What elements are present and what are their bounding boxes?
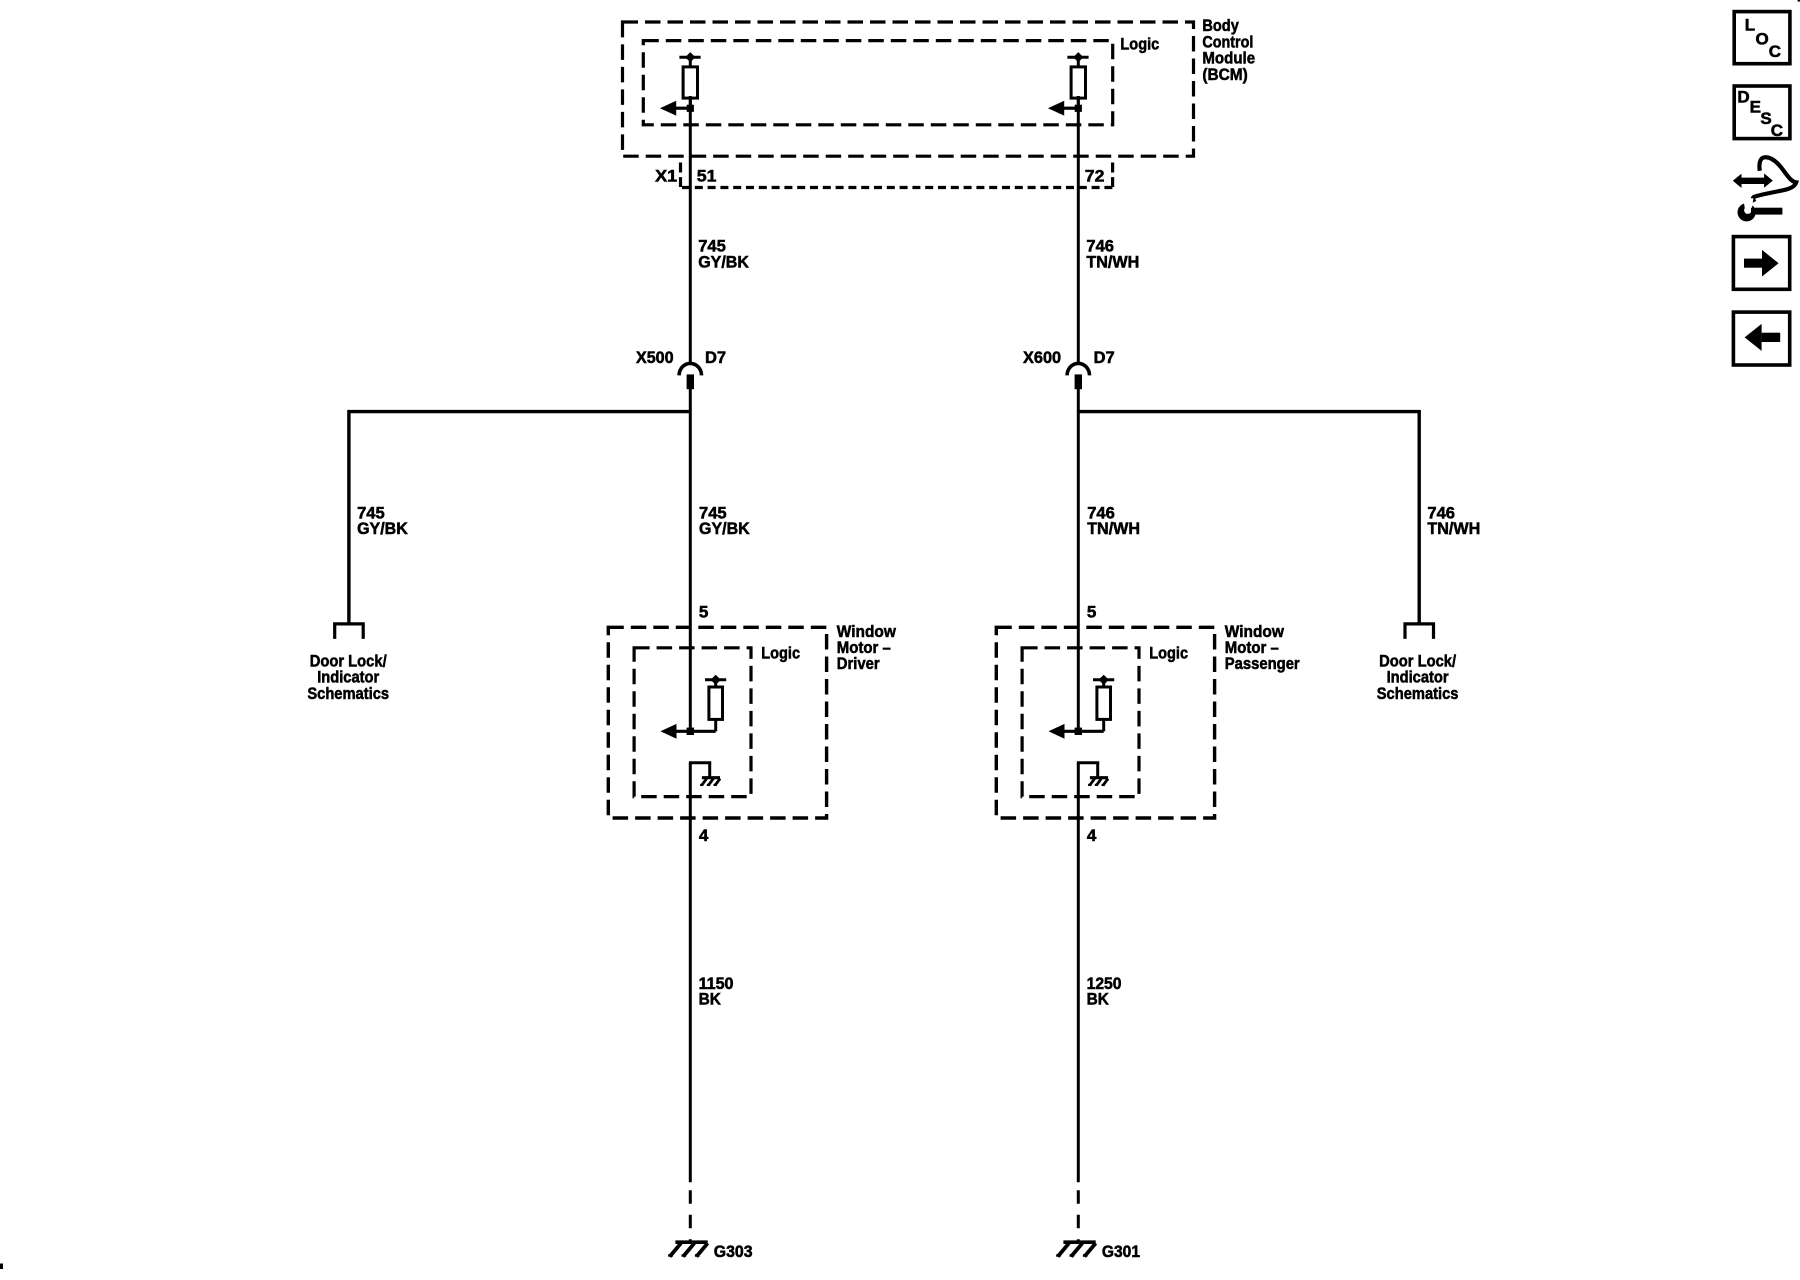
resistor driver (window motor logic) (705, 675, 726, 732)
svg-text:G301: G301 (1102, 1242, 1140, 1261)
page mark (bottom left) (0, 1264, 3, 1270)
svg-text:4: 4 (699, 826, 709, 845)
dashed wire segment to G301 (1077, 1190, 1080, 1240)
svg-text:G303: G303 (714, 1242, 753, 1261)
svg-text:X1: X1 (655, 166, 677, 185)
svg-text:TN/WH: TN/WH (1087, 519, 1140, 538)
ground (internal chassis ground, driver) (689, 763, 720, 786)
svg-text:5: 5 (699, 602, 708, 621)
wire 746 TN/WH from BCM pin 72 to connector X600 (1077, 96, 1080, 363)
resistor right (BCM driver output) (1067, 52, 1088, 108)
arrow output right (points left) (1048, 101, 1082, 116)
wire 1250 BK from motor passenger pin 4 toward G301 (1077, 763, 1080, 1183)
svg-text:X600: X600 (1023, 348, 1061, 367)
arrow output left (points left) (660, 101, 694, 116)
ground G303 (chassis ground) (668, 1242, 708, 1256)
svg-text:C: C (1771, 121, 1783, 140)
wire branch 745 GY/BK to door lock schematics (left) (349, 412, 690, 623)
arrow output driver (points left) (661, 724, 716, 739)
svg-text:D7: D7 (1094, 348, 1115, 367)
svg-text:Logic: Logic (1120, 34, 1159, 53)
svg-text:TN/WH: TN/WH (1086, 252, 1139, 271)
svg-text:TN/WH: TN/WH (1427, 519, 1480, 538)
svg-text:GY/BK: GY/BK (357, 519, 408, 538)
off-page terminal (door lock / indicator schematics, right) (1405, 624, 1434, 639)
wire branch 746 TN/WH to door lock schematics (right) (1078, 412, 1419, 623)
page mark (top right) (1798, 0, 1800, 2)
svg-text:(BCM): (BCM) (1202, 65, 1247, 84)
logic box inside window motor driver (634, 648, 751, 797)
connector X500 pin D7 (679, 363, 701, 389)
svg-text:51: 51 (697, 166, 717, 185)
svg-text:D: D (1737, 88, 1749, 107)
svg-text:4: 4 (1087, 826, 1097, 845)
svg-text:Logic: Logic (761, 644, 800, 663)
wire 745 GY/BK from BCM pin 51 to connector X500 (689, 96, 692, 363)
icon DESC (description box) (1734, 86, 1790, 140)
arrow output passenger (points left) (1049, 724, 1104, 739)
module box: Window Motor - Passenger (996, 627, 1214, 818)
logic box inside window motor passenger (1022, 648, 1139, 797)
dashed wire segment to G303 (689, 1190, 692, 1240)
svg-text:GY/BK: GY/BK (698, 252, 749, 271)
icon back arrow box (1733, 312, 1789, 365)
svg-text:Schematics: Schematics (1377, 684, 1459, 703)
svg-text:BK: BK (1087, 989, 1110, 1008)
resistor passenger (window motor logic) (1093, 675, 1114, 732)
svg-text:5: 5 (1087, 602, 1096, 621)
icon LOC (location box) (1734, 12, 1790, 64)
svg-text:Logic: Logic (1149, 644, 1188, 663)
svg-text:C: C (1769, 42, 1781, 61)
wire 746 TN/WH from X600 down to window motor passenger pin 5 (1077, 389, 1080, 733)
svg-text:Passenger: Passenger (1225, 654, 1300, 673)
svg-text:Schematics: Schematics (307, 684, 389, 703)
icon diagnostic pointer (double arrow + wrench) (1733, 157, 1796, 221)
svg-text:72: 72 (1085, 166, 1105, 185)
ground G301 (chassis ground) (1056, 1242, 1096, 1256)
svg-text:GY/BK: GY/BK (699, 519, 750, 538)
svg-text:Driver: Driver (837, 654, 880, 673)
svg-text:L: L (1745, 15, 1755, 34)
ground (internal chassis ground, passenger) (1077, 763, 1108, 786)
svg-text:X500: X500 (636, 348, 674, 367)
connector X1 boundary (dashed ticks + dotted line) (681, 163, 1114, 188)
connector X600 pin D7 (1067, 363, 1089, 389)
module box: Body Control Module (BCM) (623, 22, 1194, 156)
module box: Window Motor - Driver (608, 627, 826, 818)
svg-text:D7: D7 (705, 348, 726, 367)
wire 1150 BK from motor driver pin 4 toward G303 (689, 763, 692, 1183)
svg-text:BK: BK (699, 989, 722, 1008)
off-page terminal (door lock / indicator schematics, left) (335, 624, 364, 639)
resistor left (BCM driver output) (679, 52, 700, 108)
wire 745 GY/BK from X500 down to window motor driver pin 5 (689, 389, 692, 733)
svg-text:O: O (1756, 30, 1769, 49)
icon forward arrow box (1733, 237, 1789, 290)
logic box inside BCM (643, 41, 1112, 125)
svg-text:E: E (1750, 98, 1761, 117)
